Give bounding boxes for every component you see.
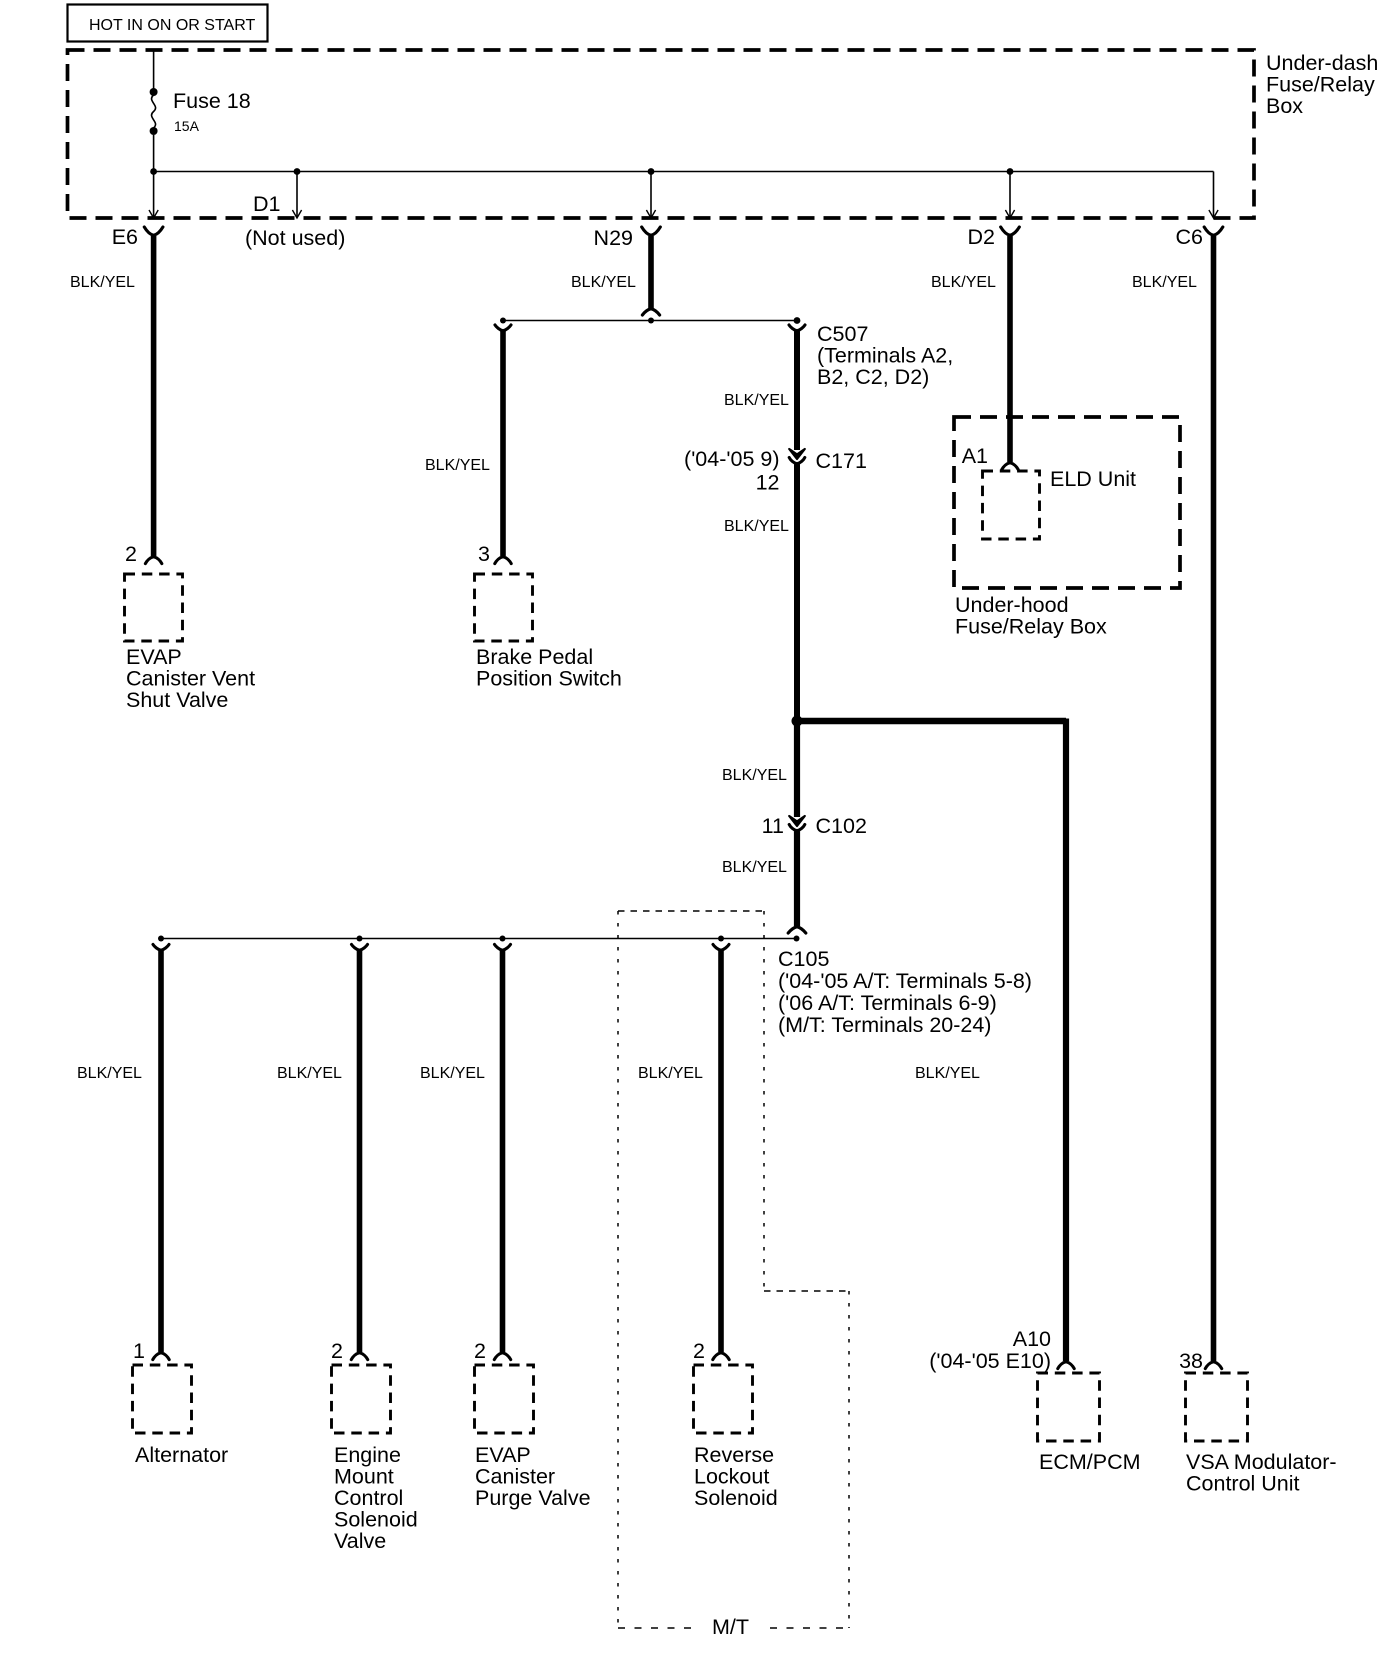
svg-text:BLK/YEL: BLK/YEL [70, 274, 135, 291]
svg-text:12: 12 [756, 471, 780, 495]
svg-text:Solenoid: Solenoid [334, 1508, 418, 1532]
svg-text:Shut Valve: Shut Valve [126, 688, 228, 712]
svg-text:(Terminals A2,: (Terminals A2, [817, 344, 953, 368]
svg-text:Box: Box [1266, 94, 1303, 118]
svg-text:38: 38 [1179, 1349, 1203, 1373]
svg-text:N29: N29 [594, 226, 633, 250]
connector N29 female cup [642, 227, 661, 235]
node above brake pedal switch [500, 318, 506, 324]
svg-text:Engine: Engine [334, 1443, 401, 1467]
node under N29 [648, 318, 654, 324]
splice rail C105 [161, 938, 797, 940]
svg-text:BLK/YEL: BLK/YEL [277, 1065, 342, 1082]
node: split to ECM/PCM [792, 716, 803, 727]
wire drop to N29 with arrow [650, 172, 652, 218]
C105 wire end cup [788, 927, 806, 933]
svg-text:Under-hood: Under-hood [955, 593, 1069, 617]
svg-text:Fuse/Relay: Fuse/Relay [1266, 73, 1375, 97]
wire to engine mount solenoid, BLK/YEL [357, 951, 363, 1352]
svg-text:BLK/YEL: BLK/YEL [1132, 274, 1197, 291]
wire D2 to ELD unit, BLK/YEL [1007, 236, 1013, 462]
svg-text:EVAP: EVAP [126, 645, 182, 669]
VSA modulator-control unit box [1186, 1373, 1248, 1441]
svg-text:Under-dash: Under-dash [1266, 51, 1378, 75]
svg-text:VSA Modulator-: VSA Modulator- [1186, 1450, 1337, 1474]
fuse F18 element (15A) [152, 95, 156, 128]
svg-text:Fuse/Relay Box: Fuse/Relay Box [955, 615, 1107, 639]
svg-text:2: 2 [125, 542, 137, 566]
svg-text:C102: C102 [816, 814, 867, 838]
svg-text:BLK/YEL: BLK/YEL [425, 457, 490, 474]
cup at top of engine mount solenoid wire [352, 944, 368, 950]
node to reverse lockout solenoid [718, 936, 724, 942]
connector C171: male pin 12 into female [789, 449, 805, 459]
svg-text:('04-'05 A/T: Terminals 5-8): ('04-'05 A/T: Terminals 5-8) [778, 969, 1032, 993]
node at C507 [794, 317, 801, 324]
svg-text:ELD Unit: ELD Unit [1050, 467, 1136, 491]
svg-text:A10: A10 [1013, 1327, 1051, 1351]
node to alternator [158, 936, 164, 942]
terminal A1 cup at ELD unit [1002, 463, 1018, 470]
svg-text:2: 2 [693, 1339, 705, 1363]
svg-text:15A: 15A [174, 118, 200, 134]
power source box: HOT IN ON OR START [68, 5, 268, 42]
svg-text:Fuse 18: Fuse 18 [173, 89, 251, 113]
ELD unit box [983, 471, 1040, 539]
svg-text:Canister: Canister [475, 1465, 555, 1489]
terminal 2 cup at EVAP purge valve [494, 1353, 510, 1360]
fuse F18 top terminal dot [150, 88, 158, 96]
svg-text:Mount: Mount [334, 1465, 394, 1489]
node to EVAP purge valve [500, 936, 506, 942]
wire to reverse lockout solenoid, BLK/YEL [718, 951, 724, 1352]
junction rail to brake switch and C507 [503, 320, 797, 322]
svg-text:BLK/YEL: BLK/YEL [724, 392, 789, 409]
wire drop to D1 with arrow [296, 172, 298, 218]
svg-text:HOT IN ON OR START: HOT IN ON OR START [89, 17, 255, 34]
under-hood fuse/relay box [954, 417, 1180, 588]
node at fuse output [150, 168, 157, 175]
engine mount control solenoid valve box [332, 1365, 391, 1433]
svg-text:Brake Pedal: Brake Pedal [476, 645, 593, 669]
svg-text:Position Switch: Position Switch [476, 667, 622, 691]
svg-text:BLK/YEL: BLK/YEL [915, 1065, 980, 1082]
svg-text:2: 2 [474, 1339, 486, 1363]
svg-text:Purge Valve: Purge Valve [475, 1486, 591, 1510]
wire from hot feed into fuse [153, 50, 155, 92]
svg-text:BLK/YEL: BLK/YEL [931, 274, 996, 291]
svg-text:C171: C171 [816, 449, 867, 473]
svg-text:Control Unit: Control Unit [1186, 1472, 1300, 1496]
svg-text:Control: Control [334, 1486, 403, 1510]
svg-text:Canister Vent: Canister Vent [126, 667, 255, 691]
cup below C507 node [789, 325, 805, 331]
svg-text:('06 A/T: Terminals 6-9): ('06 A/T: Terminals 6-9) [778, 991, 997, 1015]
svg-text:BLK/YEL: BLK/YEL [420, 1065, 485, 1082]
svg-text:M/T: M/T [712, 1615, 749, 1639]
svg-text:Valve: Valve [334, 1529, 386, 1553]
wire drop to C6 with arrow [1213, 172, 1215, 218]
svg-text:11: 11 [762, 814, 784, 838]
svg-text:D2: D2 [968, 225, 995, 249]
terminal 3 cup at brake pedal switch [495, 557, 511, 564]
wire E6 to EVAP vent valve, BLK/YEL [151, 236, 157, 556]
svg-text:E6: E6 [112, 225, 138, 249]
brake pedal position switch box [475, 574, 533, 641]
cup at top of brake pedal switch wire [495, 325, 511, 331]
svg-text:ECM/PCM: ECM/PCM [1039, 1450, 1141, 1474]
node N29 branch [648, 168, 655, 175]
svg-text:Lockout: Lockout [694, 1465, 769, 1489]
connector D2 female cup [1001, 227, 1020, 235]
terminal 2 cup at EVAP vent valve [145, 557, 161, 564]
wire N29 down, BLK/YEL [648, 236, 654, 308]
node D1 branch [294, 168, 301, 175]
node to engine mount solenoid [357, 936, 363, 942]
cup at top of EVAP purge valve wire [495, 944, 511, 950]
terminal 1 cup at alternator [153, 1353, 169, 1360]
wire C171 down, BLK/YEL [794, 465, 800, 722]
svg-text:A1: A1 [962, 444, 988, 468]
svg-text:BLK/YEL: BLK/YEL [722, 859, 787, 876]
wire C102 to C105, BLK/YEL [794, 832, 800, 927]
EVAP canister purge valve box [475, 1365, 534, 1433]
wire drop to E6 with arrow [153, 172, 155, 218]
wire to alternator, BLK/YEL [158, 951, 164, 1352]
wire C507 to C171, BLK/YEL [794, 332, 800, 451]
alternator box [133, 1365, 192, 1433]
wire fuse to distribution node [153, 135, 155, 172]
fuse F18 bottom terminal dot [150, 127, 158, 135]
svg-text:B2, C2, D2): B2, C2, D2) [817, 365, 929, 389]
reverse lockout solenoid box [694, 1365, 753, 1433]
svg-text:3: 3 [478, 542, 490, 566]
svg-text:1: 1 [133, 1339, 145, 1363]
cup at top of reverse lockout wire [713, 944, 729, 950]
connector C102: male pin 11 into female [789, 816, 805, 826]
wire to brake pedal switch, BLK/YEL [500, 332, 506, 557]
svg-text:EVAP: EVAP [475, 1443, 531, 1467]
svg-text:Solenoid: Solenoid [694, 1486, 778, 1510]
svg-text:2: 2 [331, 1339, 343, 1363]
terminal 2 cup at engine mount solenoid [351, 1353, 367, 1360]
wire from node to ECM/PCM [797, 718, 1066, 725]
N29 wire end cup at junction [642, 309, 659, 315]
svg-text:(Not used): (Not used) [245, 226, 345, 250]
cup at top of alternator wire [153, 944, 169, 950]
terminal 38 cup at VSA modulator [1205, 1362, 1221, 1369]
connector C6 female cup [1204, 227, 1223, 235]
connector E6 female cup [144, 227, 163, 235]
svg-text:BLK/YEL: BLK/YEL [722, 767, 787, 784]
svg-text:Reverse: Reverse [694, 1443, 774, 1467]
svg-text:BLK/YEL: BLK/YEL [571, 274, 636, 291]
svg-text:C507: C507 [817, 322, 868, 346]
svg-text:BLK/YEL: BLK/YEL [724, 518, 789, 535]
wire C6 to VSA modulator, BLK/YEL [1211, 236, 1217, 1361]
svg-text:BLK/YEL: BLK/YEL [77, 1065, 142, 1082]
svg-text:C6: C6 [1176, 225, 1204, 249]
ECM/PCM box [1038, 1373, 1100, 1441]
svg-text:BLK/YEL: BLK/YEL [638, 1065, 703, 1082]
svg-text:C105: C105 [778, 947, 829, 971]
wire drop to D2 with arrow [1009, 172, 1011, 218]
svg-text:D1: D1 [253, 192, 280, 216]
node at C105 end [794, 936, 800, 942]
under-dash fuse/relay box [68, 50, 1255, 218]
distribution wire across fuse box [154, 171, 1214, 173]
svg-text:('04-'05 9): ('04-'05 9) [684, 447, 779, 471]
node D2 branch [1007, 168, 1014, 175]
svg-text:(M/T: Terminals 20-24): (M/T: Terminals 20-24) [778, 1013, 991, 1037]
M/T option dashed outline [618, 910, 764, 912]
terminal 2 cup at reverse lockout solenoid [713, 1353, 729, 1360]
wire down to C102, BLK/YEL [794, 721, 800, 817]
wire to EVAP purge valve, BLK/YEL [500, 951, 506, 1352]
svg-text:Alternator: Alternator [135, 1443, 228, 1467]
terminal A10 cup at ECM/PCM [1058, 1362, 1074, 1369]
EVAP canister vent shut valve box [125, 574, 183, 641]
svg-text:('04-'05 E10): ('04-'05 E10) [929, 1349, 1051, 1373]
